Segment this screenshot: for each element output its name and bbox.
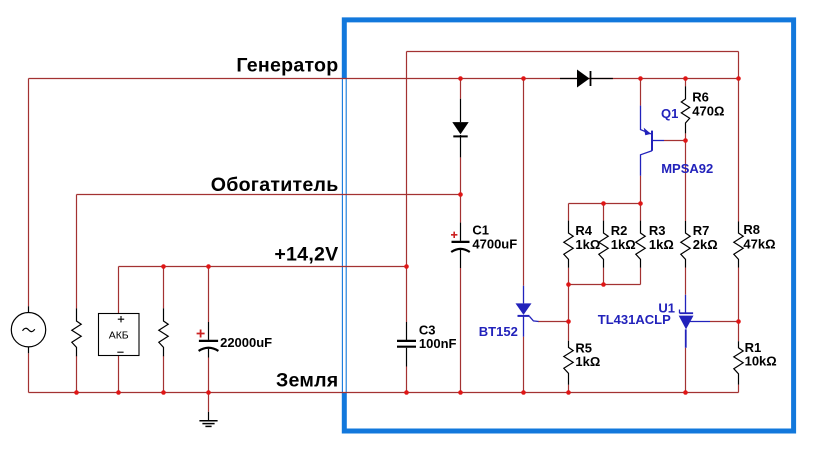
capacitor C3	[397, 322, 416, 367]
node top rail collector	[638, 201, 643, 206]
diode D2 (vertical)	[452, 99, 468, 158]
svg-text:470Ω: 470Ω	[692, 103, 724, 118]
wire battery vertical x=118.5	[118, 267, 120, 393]
battery АКБ	[99, 314, 140, 356]
node +14,2V at C22000	[206, 264, 211, 269]
node gnd C3	[404, 390, 409, 395]
svg-text:R2: R2	[611, 223, 628, 238]
svg-text:47kΩ: 47kΩ	[743, 237, 775, 252]
resistor R4	[564, 221, 573, 268]
diode D1 (on Генератор wire)	[560, 70, 613, 88]
wire inner top rail y=51	[407, 51, 739, 53]
svg-text:BT152: BT152	[479, 324, 518, 339]
wire D2/C1 branch vertical x=460.5	[460, 79, 462, 393]
node gnd RL1	[74, 390, 79, 395]
svg-text:MPSA92: MPSA92	[661, 161, 713, 176]
wire divider top rail y=203.5	[569, 203, 641, 205]
svg-text:100nF: 100nF	[419, 336, 457, 351]
svg-text:+14,2V: +14,2V	[274, 244, 338, 266]
svg-text:Обогатитель: Обогатитель	[211, 174, 339, 196]
resistor RL2 (unlabeled)	[159, 308, 168, 356]
wire net Обогатитель y=194.5	[77, 194, 461, 196]
wire C22000 vertical x=208.5	[208, 267, 210, 412]
svg-text:Земля: Земля	[276, 369, 339, 391]
node BT152 top	[521, 76, 526, 81]
wire right column x=738.5	[738, 52, 740, 393]
resistor R7	[681, 221, 690, 268]
node gnd RL2	[161, 390, 166, 395]
node gnd U1	[683, 390, 688, 395]
wire R4/R5 branch vertical x=568.5	[568, 204, 570, 393]
node gnd battery	[116, 390, 121, 395]
wire left column x=28.5	[28, 79, 30, 393]
resistor R5	[564, 341, 573, 385]
wire R6/R7 vertical x=685.5	[685, 79, 687, 393]
svg-text:АКБ: АКБ	[109, 330, 129, 342]
svg-text:1kΩ: 1kΩ	[575, 237, 600, 252]
node gate junction	[566, 319, 571, 324]
wire U1 reference y=321.5	[710, 321, 739, 323]
node gnd C22000	[206, 390, 211, 395]
node R6 top	[683, 76, 688, 81]
node D2 top	[458, 76, 463, 81]
svg-text:2kΩ: 2kΩ	[693, 237, 718, 252]
node base junction	[683, 138, 688, 143]
wire C3 branch vertical x=406.5	[406, 52, 408, 393]
svg-text:10kΩ: 10kΩ	[745, 353, 777, 368]
node bottom rail R2	[601, 282, 606, 287]
svg-text:1kΩ: 1kΩ	[575, 354, 600, 369]
svg-text:R7: R7	[693, 223, 710, 238]
svg-text:1kΩ: 1kΩ	[611, 237, 636, 252]
resistor R2	[599, 221, 608, 268]
wire R2 vertical x=603.5	[603, 204, 605, 285]
node bottom rail R4	[566, 282, 571, 287]
node Обогатитель end	[458, 192, 463, 197]
node top rail R2	[601, 201, 606, 206]
svg-text:22000uF: 22000uF	[220, 335, 272, 350]
thyristor BT152	[516, 286, 539, 337]
svg-text:R4: R4	[575, 223, 592, 238]
resistor R3	[636, 221, 645, 268]
svg-text:R6: R6	[692, 89, 709, 104]
transistor Q1 (MPSA92)	[641, 106, 665, 176]
svg-text:C1: C1	[472, 223, 489, 238]
wire RL1 vertical x=76.5	[76, 195, 78, 393]
wire net +14,2V y=266.5	[119, 266, 407, 268]
shunt reference U1 (TL431ACLP)	[679, 295, 710, 348]
node gnd R5	[566, 390, 571, 395]
selection frame (thick blue box)	[342, 20, 793, 431]
wire RL2 vertical x=163.5	[163, 267, 165, 393]
resistor R6	[681, 86, 689, 133]
node Q1 emitter	[638, 76, 643, 81]
node +14,2V at RL2	[161, 264, 166, 269]
wire net Генератор y=78	[29, 78, 739, 80]
wire divider bottom rail y=284.5	[569, 284, 641, 286]
wire BT152 branch vertical x=523.5	[523, 79, 525, 393]
node R8 top	[736, 76, 741, 81]
svg-text:R3: R3	[649, 223, 666, 238]
svg-text:TL431ACLP: TL431ACLP	[598, 312, 671, 327]
resistor R8	[734, 222, 743, 268]
svg-text:R8: R8	[743, 222, 760, 237]
node gnd BT152	[521, 390, 526, 395]
ground	[199, 412, 217, 427]
capacitor 22000uF	[197, 322, 219, 358]
svg-text:Q1: Q1	[661, 106, 678, 121]
resistor R1	[734, 341, 743, 384]
svg-text:1kΩ: 1kΩ	[649, 237, 674, 252]
AC source V1	[11, 306, 45, 353]
node U1 right junction	[736, 319, 741, 324]
capacitor C1	[451, 223, 470, 268]
wire BT152 gate y=321.5	[538, 321, 569, 323]
wire Q1/R3 vertical x=640.5	[640, 79, 642, 285]
wire net Земля y=392.5	[29, 392, 739, 394]
svg-text:Генератор: Генератор	[236, 54, 338, 76]
node gnd C1	[458, 390, 463, 395]
svg-text:4700uF: 4700uF	[472, 236, 517, 251]
node +14,2V end	[404, 264, 409, 269]
wire Q1 base y=140.5	[664, 140, 686, 142]
resistor RL1 (unlabeled)	[72, 308, 81, 356]
